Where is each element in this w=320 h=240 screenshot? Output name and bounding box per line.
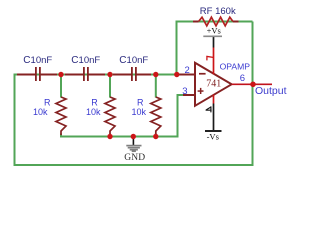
capacitor C1 lead left <box>17 74 35 76</box>
svg-text:-Vs: -Vs <box>207 131 219 141</box>
junction node B (pin2 / RF) <box>174 72 179 77</box>
junction node after C1 <box>58 72 63 77</box>
resistor RF lead right <box>233 21 239 23</box>
wire RF top row <box>176 21 253 23</box>
wire resistor R3 bottom stub <box>155 134 157 137</box>
junction rail GND <box>131 134 136 139</box>
svg-text:Output: Output <box>255 85 287 97</box>
resistor R2 zigzag <box>105 97 115 131</box>
op-amp pin 6 output lead <box>232 83 272 85</box>
resistor R3 zigzag <box>151 97 161 131</box>
svg-text:C10nF: C10nF <box>71 55 100 66</box>
op-amp pin 2 lead <box>179 74 196 76</box>
svg-text:OPAMP: OPAMP <box>220 61 251 71</box>
wire pin3 to ground drop <box>178 94 185 96</box>
op-amp pin 4 lead <box>213 95 215 104</box>
wire ground rail <box>60 136 179 138</box>
wire resistor R1 bottom stub <box>60 134 62 137</box>
pin number 4 <box>206 106 212 112</box>
svg-text:2: 2 <box>185 65 190 76</box>
ground bars <box>126 145 141 147</box>
svg-text:6: 6 <box>240 73 245 84</box>
svg-text:10k: 10k <box>86 107 101 117</box>
capacitor C2 lead left <box>65 74 83 76</box>
junction rail R3 <box>153 134 158 139</box>
op-amp pin 7 lead <box>213 36 215 47</box>
svg-text:10k: 10k <box>132 107 147 117</box>
wire feedback left vertical <box>14 74 16 166</box>
wire capacitor row base <box>14 74 196 76</box>
wire resistor R1 top stub <box>60 76 62 98</box>
op-amp U1 triangle <box>195 63 232 106</box>
wire resistor R3 top stub <box>155 76 157 98</box>
capacitor C3 lead right <box>137 74 151 76</box>
resistor RF lead left <box>193 21 199 23</box>
-Vs power bar <box>205 130 222 132</box>
resistor RF zigzag <box>199 17 234 26</box>
junction output node <box>250 82 256 88</box>
junction rail R2 <box>107 134 112 139</box>
svg-text:3: 3 <box>182 86 187 97</box>
resistor R1 zigzag <box>56 97 66 131</box>
capacitor C1 lead right <box>41 74 57 76</box>
svg-text:GND: GND <box>124 153 145 163</box>
op-amp minus sign <box>199 73 206 75</box>
op-amp pin 3 lead <box>183 94 196 96</box>
svg-text:+Vs: +Vs <box>207 25 221 35</box>
wire feedback bottom horizontal <box>14 164 254 166</box>
wire resistor R2 bottom stub <box>109 134 111 137</box>
capacitor C3 plates <box>131 67 133 81</box>
+Vs power bar <box>203 35 222 37</box>
wire RF left drop to node B <box>176 21 178 75</box>
capacitor C3 lead left <box>113 74 131 76</box>
capacitor C2 plates <box>83 67 85 81</box>
capacitor C2 lead right <box>89 74 105 76</box>
op-amp plus sign <box>198 90 204 92</box>
ground stem <box>132 137 134 146</box>
svg-text:RF 160k: RF 160k <box>200 6 236 17</box>
svg-text:10k: 10k <box>33 107 48 117</box>
svg-text:C10nF: C10nF <box>119 55 148 66</box>
wire feedback right vertical (output node to RF) <box>252 22 254 166</box>
wire resistor R2 top stub <box>109 76 111 98</box>
svg-text:741: 741 <box>206 79 221 90</box>
svg-text:C10nF: C10nF <box>23 55 52 66</box>
capacitor C1 plates <box>35 67 37 81</box>
pin number 7 <box>206 56 213 61</box>
junction node after C3 <box>153 72 158 77</box>
junction node after C2 <box>107 72 112 77</box>
